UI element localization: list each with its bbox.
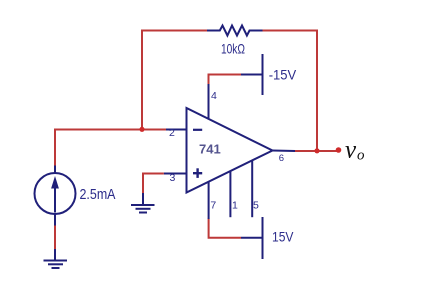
svg-text:7: 7 [210,199,216,211]
svg-text:3: 3 [170,172,176,184]
svg-text:2: 2 [169,127,175,139]
svg-text:2.5mA: 2.5mA [80,186,116,203]
svg-text:o: o [357,147,365,163]
svg-text:1: 1 [232,199,238,211]
svg-text:15V: 15V [272,229,294,245]
svg-text:10kΩ: 10kΩ [221,40,245,56]
svg-text:5: 5 [253,199,259,211]
svg-text:v: v [345,137,357,164]
svg-text:741: 741 [199,142,221,157]
svg-text:4: 4 [211,90,217,102]
svg-text:-15V: -15V [269,66,297,82]
svg-text:6: 6 [279,153,284,164]
